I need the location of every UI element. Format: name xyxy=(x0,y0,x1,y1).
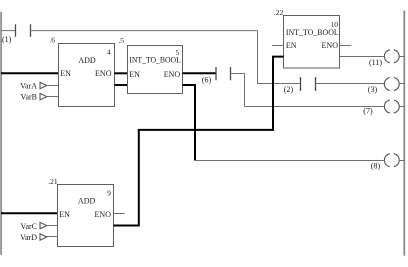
contact (1) xyxy=(2,24,31,44)
svg-text:.22: .22 xyxy=(274,8,284,17)
svg-text:(6): (6) xyxy=(202,76,212,85)
power wire EN to ADD block 6 xyxy=(1,72,59,74)
input VarA xyxy=(20,81,58,90)
stub ADD21 ENO output xyxy=(114,213,125,215)
wire coil (7) to right rail xyxy=(399,106,405,108)
stub block22 ENO output xyxy=(340,45,352,47)
svg-text:.6: .6 xyxy=(49,36,55,45)
svg-text:4: 4 xyxy=(107,47,111,56)
svg-text:(7): (7) xyxy=(363,107,373,116)
wire coil (8) to right rail xyxy=(399,160,405,162)
op block ADD 21 xyxy=(48,177,113,246)
svg-text:VarC: VarC xyxy=(21,222,37,231)
svg-text:(2): (2) xyxy=(284,85,294,94)
svg-text:EN: EN xyxy=(60,69,71,78)
wire ADD6 ENO to block5 EN xyxy=(115,72,128,74)
svg-text:.21: .21 xyxy=(48,177,58,186)
op block INT_TO_BOOL 5 xyxy=(118,36,182,93)
svg-text:ENO: ENO xyxy=(164,70,181,79)
svg-text:(8): (8) xyxy=(371,162,381,171)
svg-text:VarB: VarB xyxy=(21,92,37,101)
contact (2) xyxy=(284,77,316,94)
right power rail xyxy=(403,11,405,256)
svg-text:EN: EN xyxy=(59,210,70,219)
svg-text:VarD: VarD xyxy=(20,233,37,242)
op block INT_TO_BOOL 22 xyxy=(274,8,340,68)
input VarC xyxy=(21,222,58,231)
coil (11) xyxy=(369,50,399,67)
svg-text:EN: EN xyxy=(129,70,140,79)
coil (3) xyxy=(368,78,399,95)
svg-text:.5: .5 xyxy=(118,36,124,45)
svg-text:(11): (11) xyxy=(369,58,382,67)
svg-text:9: 9 xyxy=(107,189,111,198)
wire block5 ENO to contact (6) xyxy=(183,72,217,74)
coil (8) xyxy=(371,154,399,171)
wire coil (11) to right rail xyxy=(399,56,405,58)
wire contact (1) to corner xyxy=(30,30,258,32)
wire to coil (7) xyxy=(245,106,385,108)
wire to coil (8) xyxy=(194,160,384,162)
wire block5 OUT down xyxy=(183,85,196,161)
input VarD xyxy=(20,233,57,242)
svg-text:INT_TO_BOOL: INT_TO_BOOL xyxy=(286,28,339,37)
svg-text:VarA: VarA xyxy=(20,81,37,90)
wire to contact (2) xyxy=(257,83,301,85)
svg-text:INT_TO_BOOL: INT_TO_BOOL xyxy=(129,56,181,65)
wire ADD21 OUT to block22 IN xyxy=(114,57,284,226)
wire contact (6) drop xyxy=(244,74,246,107)
stub block22 EN input xyxy=(272,45,284,47)
contact (6) xyxy=(202,67,231,85)
svg-text:ENO: ENO xyxy=(322,41,339,50)
op block ADD 6 xyxy=(49,36,114,107)
wire coil (3) to right rail xyxy=(399,83,405,85)
wire ADD6 OUT to block5 IN xyxy=(115,84,128,86)
svg-text:ENO: ENO xyxy=(95,210,112,219)
wire contact (2) to coil (3) xyxy=(316,83,385,85)
coil (7) xyxy=(363,100,399,116)
svg-text:ADD: ADD xyxy=(78,56,96,65)
wire contact (6) right xyxy=(231,73,245,75)
svg-text:ENO: ENO xyxy=(95,69,112,78)
svg-text:(1): (1) xyxy=(2,35,12,44)
svg-text:ADD: ADD xyxy=(78,197,96,206)
input VarB xyxy=(21,92,59,101)
svg-text:EN: EN xyxy=(286,41,297,50)
wire left rail to contact (1) xyxy=(1,30,16,32)
left power rail xyxy=(0,12,2,255)
wire vertical drop to row 2 xyxy=(257,31,259,84)
wire block22 OUT to coil (11) xyxy=(340,56,385,58)
svg-text:(3): (3) xyxy=(368,85,378,94)
power wire EN to ADD block 21 xyxy=(1,212,58,214)
